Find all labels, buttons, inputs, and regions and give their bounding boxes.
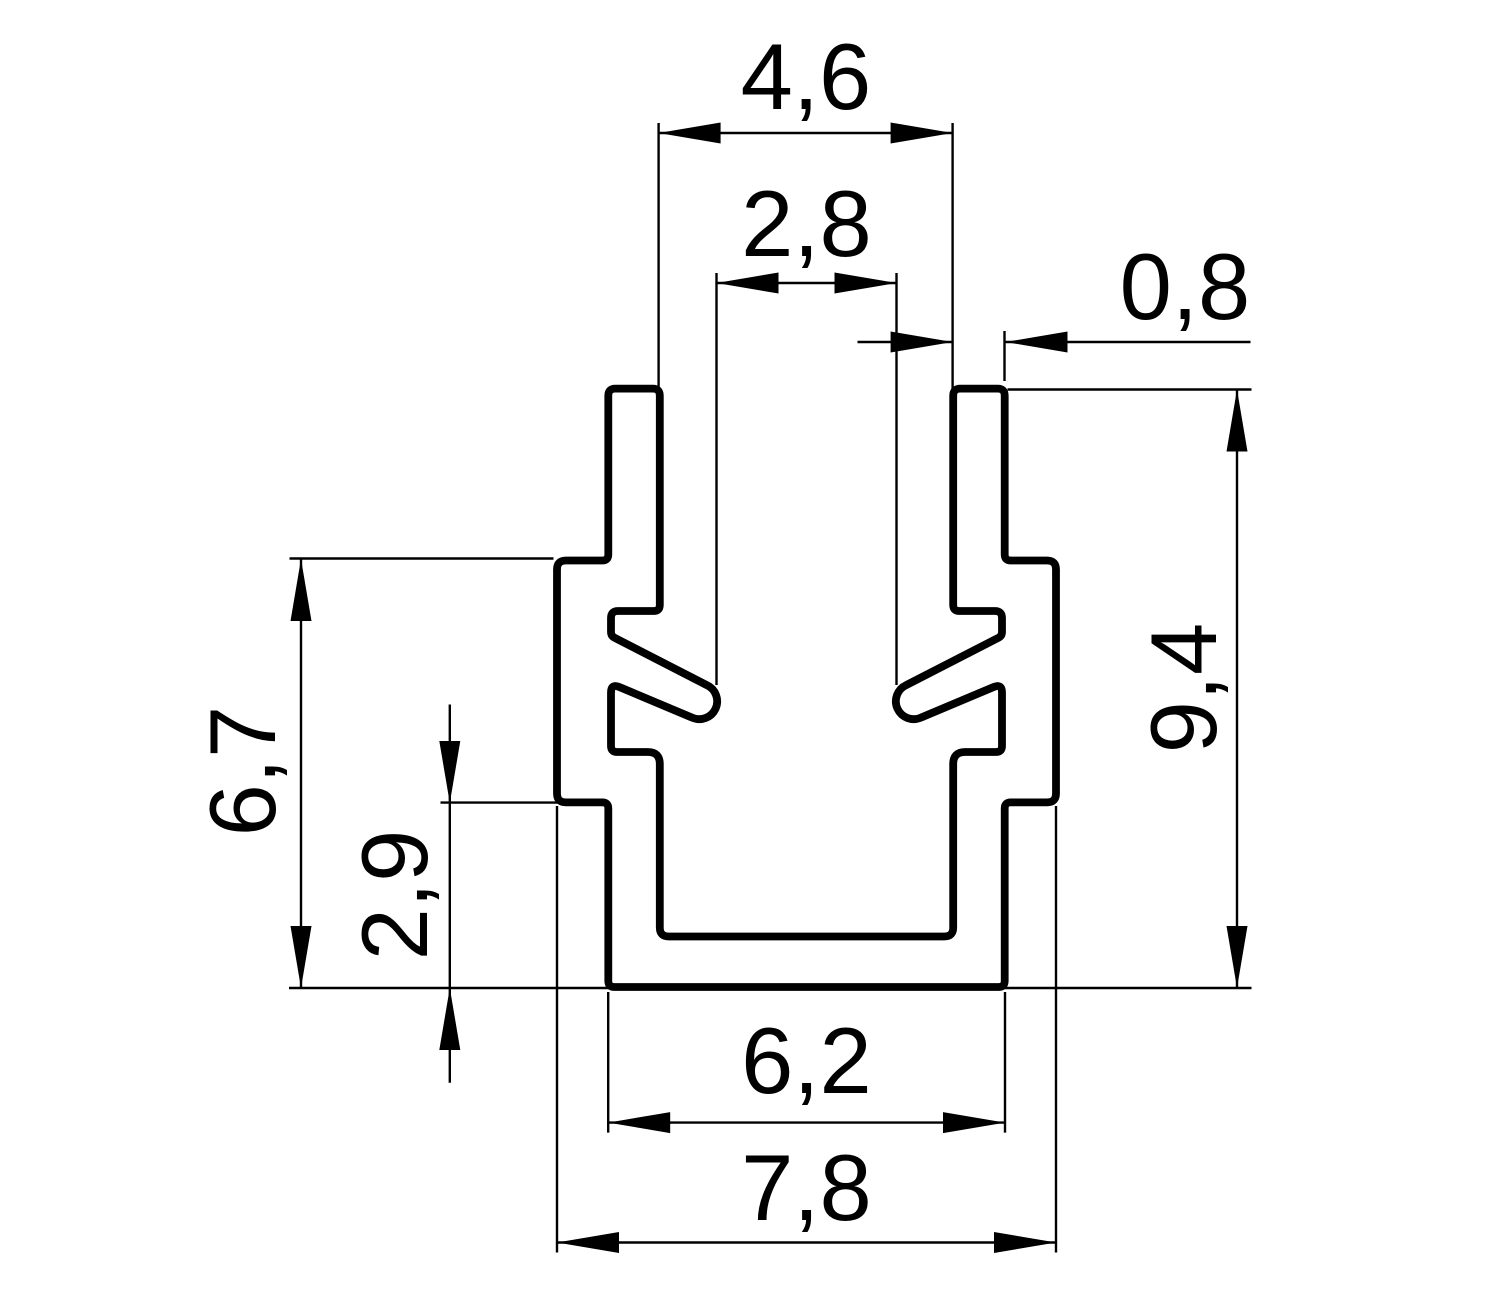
dim 6,7 line (300, 559, 302, 988)
dim 7,8 line (557, 1241, 1056, 1243)
svg-text:2,9: 2,9 (342, 830, 447, 961)
profile outline (557, 389, 1056, 987)
dim 6,7 ext top (290, 557, 554, 559)
dim 2,8 line (717, 282, 897, 284)
arrowheads 7,8 (557, 1232, 619, 1253)
dim 2,9 ext top (441, 801, 610, 803)
dim 6,2 ext right (1004, 992, 1006, 1133)
svg-text:2,8: 2,8 (741, 171, 872, 276)
arrowheads 0,8 (891, 332, 953, 353)
svg-text:0,8: 0,8 (1120, 234, 1251, 339)
dim 7,8 ext left (556, 806, 558, 1253)
dim 9,4 line (1236, 390, 1238, 989)
dim 9,4 ext top (1008, 388, 1252, 390)
dim 0,8 tail left (858, 341, 953, 343)
arrowheads 4,6 (659, 123, 721, 144)
dim 4,6 ext right (951, 123, 953, 390)
svg-text:9,4: 9,4 (1131, 623, 1236, 754)
svg-text:6,7: 6,7 (190, 706, 295, 837)
dim 0,8 tail right (1006, 341, 1251, 343)
dim 2,9 line (449, 705, 451, 1083)
svg-text:7,8: 7,8 (741, 1135, 872, 1240)
dim 2,8 ext left (715, 273, 717, 685)
svg-text:6,2: 6,2 (741, 1008, 872, 1113)
dim 2,8 ext right (895, 273, 897, 685)
dim 4,6 ext left (657, 123, 659, 390)
dim 4,6 line (659, 132, 953, 134)
dim 0,8 ext (1003, 331, 1005, 381)
dim 6,2 line (608, 1121, 1005, 1123)
dim 6,2 ext left (607, 992, 609, 1133)
arrowheads 6,7 (291, 559, 312, 621)
arrowheads 6,2 (608, 1112, 670, 1133)
svg-text:4,6: 4,6 (741, 24, 872, 129)
arrowheads 2,9 (439, 741, 460, 803)
arrowheads 2,8 (717, 273, 779, 294)
arrowheads 9,4 (1227, 390, 1248, 452)
dim 7,8 ext right (1055, 806, 1057, 1253)
shared bottom ext line (289, 987, 1252, 989)
